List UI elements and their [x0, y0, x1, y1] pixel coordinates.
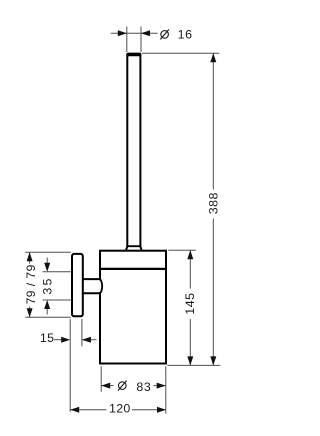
extension line rod left	[126, 27, 128, 53]
extension line container left vertical	[100, 366, 102, 392]
dim line 388 lower segment	[212, 219, 214, 366]
dim line 15 right tail	[82, 339, 97, 341]
extension line plate left vertical	[69, 319, 71, 412]
dim line 145 upper segment	[189, 250, 191, 288]
svg-text:145: 145	[183, 293, 197, 315]
dim line diameter 16	[111, 32, 158, 34]
arrow 120 right	[157, 407, 166, 413]
dim line 79/79 upper segment	[29, 252, 31, 263]
label d16 symbol	[160, 29, 169, 39]
rod flare left	[126, 247, 127, 251]
dim line 120 left segment	[70, 409, 106, 411]
mounting arm bottom edge	[83, 292, 102, 294]
extension line container right vertical	[165, 366, 167, 413]
extension line 35 bottom	[43, 299, 71, 301]
svg-text:83: 83	[136, 380, 151, 394]
dim line 79/79 lower segment	[29, 307, 31, 318]
rod collar line	[127, 245, 141, 247]
arrow 388 top	[210, 53, 216, 62]
arm erase container edge	[99, 280, 103, 292]
arrow 15 left	[61, 337, 70, 343]
dim line diameter 83 left segment	[101, 385, 113, 387]
arrow 79 bottom	[27, 308, 33, 317]
svg-text:79 / 79: 79 / 79	[24, 264, 38, 304]
container body	[100, 251, 166, 364]
mounting arm end bulge	[101, 280, 103, 293]
extension line plate right vertical	[81, 319, 83, 347]
extension line 35 top	[43, 271, 71, 273]
dim line diameter 83 right segment	[154, 385, 166, 387]
dim line 35 upper tail	[46, 258, 48, 265]
label d83 symbol	[118, 381, 127, 391]
dim line 388 upper segment	[212, 53, 214, 189]
arrow d83 left	[101, 383, 110, 389]
svg-text:388: 388	[207, 192, 221, 214]
svg-text:120: 120	[109, 401, 131, 415]
arrow 145 bottom	[187, 356, 193, 365]
svg-text:15: 15	[40, 331, 55, 345]
svg-text:16: 16	[178, 28, 193, 42]
extension line 79 top	[25, 251, 71, 253]
handle rod top cap	[126, 53, 141, 57]
dim line 35 lower tail	[46, 308, 48, 315]
container rim line	[99, 268, 167, 270]
wall plate	[72, 254, 83, 316]
arrow d16 left	[118, 30, 127, 36]
extension line bottom right	[167, 364, 220, 366]
dim line 120 right segment	[132, 409, 166, 411]
arrow 35 upper	[44, 263, 50, 272]
handle rod right wall	[139, 55, 141, 248]
arrow 79 top	[27, 252, 33, 261]
extension line rod right	[140, 27, 142, 53]
extension line top 145	[168, 249, 196, 251]
dim line 145 lower segment	[189, 319, 191, 365]
extension line top 388	[142, 52, 219, 54]
rod flare right	[141, 247, 142, 251]
handle rod left wall	[126, 55, 128, 248]
extension line 79 bottom	[25, 316, 71, 318]
arrow d16 right	[141, 30, 150, 36]
arrow 35 lower	[44, 300, 50, 309]
arrow d83 right	[157, 383, 166, 389]
mounting arm top edge	[83, 278, 102, 280]
arrow 145 top	[187, 250, 193, 259]
svg-text:35: 35	[41, 276, 55, 294]
arrow 388 bottom	[210, 356, 216, 365]
arrow 15 right	[82, 337, 91, 343]
arrow 120 left	[70, 407, 79, 413]
dim line 15 left segment	[54, 339, 63, 341]
